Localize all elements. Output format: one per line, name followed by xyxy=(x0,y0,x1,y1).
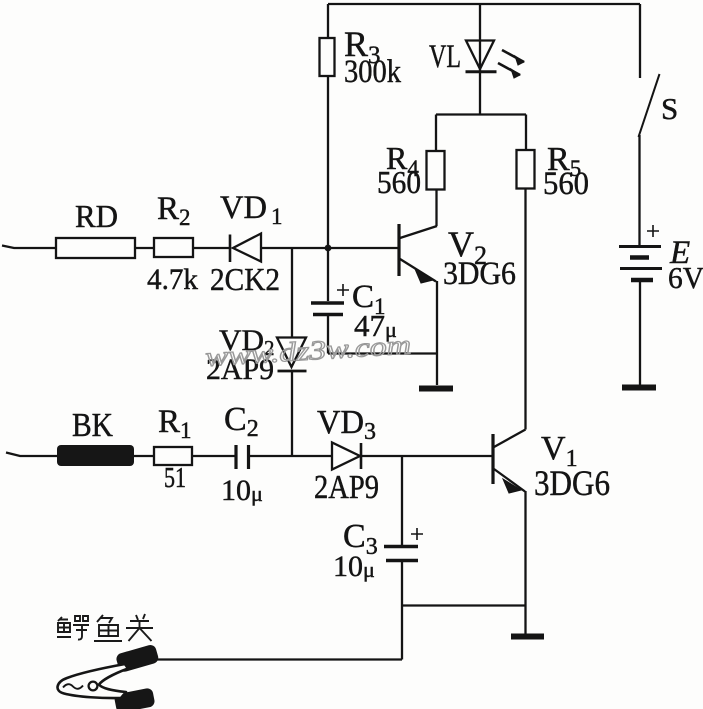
component RD (reed pickup) xyxy=(56,238,135,258)
wire LED top lead xyxy=(479,4,481,71)
component BK (black probe) xyxy=(57,445,134,466)
wire VD2 top lead xyxy=(291,248,293,338)
switch S xyxy=(639,74,660,137)
LED VL xyxy=(466,41,525,79)
diode VD3 2AP9 xyxy=(332,443,361,470)
resistor R2 xyxy=(154,238,193,257)
wire V1 emitter lead xyxy=(524,491,526,634)
svg-text:1: 1 xyxy=(271,204,283,229)
resistor R3 xyxy=(320,38,335,76)
svg-text:S: S xyxy=(661,91,678,126)
wire to alligator clip xyxy=(157,658,402,660)
svg-text:3: 3 xyxy=(364,419,376,445)
svg-text:3DG6: 3DG6 xyxy=(534,463,610,503)
svg-text:6V: 6V xyxy=(668,260,703,295)
resistor R5 xyxy=(517,150,535,189)
alligator clip xyxy=(58,644,160,709)
transistor V2 3DG6 xyxy=(399,224,437,283)
wire R5 bottom lead to V1 collector xyxy=(524,189,526,430)
wire C3 to V1 emitter xyxy=(402,604,526,606)
wire top rail xyxy=(328,3,640,5)
wire R3 top lead xyxy=(327,4,329,38)
wire switch top lead xyxy=(639,4,641,78)
wire R4 bottom lead xyxy=(435,190,437,227)
wire R3 bottom lead xyxy=(327,76,329,248)
svg-text:4.7k: 4.7k xyxy=(147,263,198,296)
diode VD1 2CK2 xyxy=(230,234,261,263)
svg-text:51: 51 xyxy=(164,463,186,494)
wire C3 bottom lead xyxy=(401,562,403,660)
resistor R1 xyxy=(154,447,192,465)
diode VD2 2AP9 xyxy=(277,338,307,372)
svg-text:560: 560 xyxy=(543,166,589,202)
svg-text:BK: BK xyxy=(72,407,113,444)
wire battery bottom lead xyxy=(639,282,641,385)
wire R5 top lead xyxy=(525,115,527,151)
wire input rail BK xyxy=(6,453,492,457)
svg-text:2CK2: 2CK2 xyxy=(210,261,280,297)
wire R4 top lead xyxy=(435,115,437,152)
wire LED bottom lead xyxy=(479,72,481,115)
svg-text:2AP9: 2AP9 xyxy=(314,469,379,506)
wire VD1 to V2 base xyxy=(261,247,399,249)
wire input rail RD xyxy=(2,246,229,249)
label Chinese "alligator clip" drawn as strokes xyxy=(57,614,153,641)
svg-text:560: 560 xyxy=(377,164,421,200)
capacitor C3 xyxy=(384,528,423,561)
node junction at C1 top xyxy=(325,245,332,252)
resistor R4 xyxy=(427,151,445,190)
wire switch to battery xyxy=(638,135,640,246)
ground V1 xyxy=(511,634,544,640)
battery E xyxy=(619,225,662,280)
svg-text:VD: VD xyxy=(317,404,364,441)
wire C1 bottom lead xyxy=(327,316,329,354)
wire C1 to V2 emitter xyxy=(328,352,437,354)
capacitor C2 xyxy=(236,445,249,469)
wire tee to R4 R5 xyxy=(436,113,526,115)
wire C1 top lead xyxy=(327,248,329,301)
svg-text:VD: VD xyxy=(220,190,267,226)
svg-text:VL: VL xyxy=(429,39,461,75)
svg-text:300k: 300k xyxy=(344,54,401,90)
ground battery xyxy=(622,385,656,391)
transistor V1 3DG6 xyxy=(493,430,526,494)
svg-text:RD: RD xyxy=(75,198,118,234)
wire V2 emitter lead xyxy=(436,281,438,385)
svg-text:3DG6: 3DG6 xyxy=(443,256,516,292)
wire C3 top lead xyxy=(401,456,403,545)
ground V2 xyxy=(419,386,453,392)
wire VD2 bottom lead xyxy=(291,372,293,456)
capacitor C1 xyxy=(311,284,349,315)
